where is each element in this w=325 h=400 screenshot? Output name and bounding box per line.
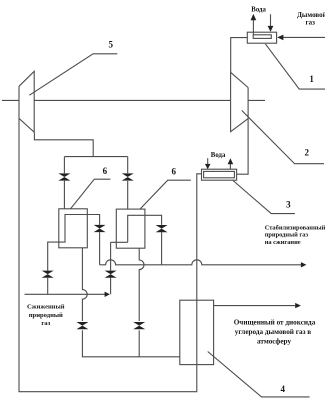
svg-text:6: 6 — [171, 167, 176, 177]
svg-text:природный: природный — [29, 312, 63, 319]
label pointer 1 — [265, 44, 325, 89]
svg-text:Вода: Вода — [251, 6, 266, 13]
svg-text:4: 4 — [280, 384, 285, 394]
wire E6a tube circuit from valve V4 — [48, 215, 100, 271]
heat exchanger U1 inner tube — [253, 35, 271, 39]
heat exchanger U3 outer shell — [202, 169, 237, 180]
label pointer 4 — [208, 352, 310, 397]
wire compressor left edge and recycle loop — [19, 86, 202, 391]
wire water outlet line U1 — [252, 20, 254, 35]
wire water inlet line U1 — [270, 14, 272, 26]
wire turbine outlet to U3 — [237, 88, 249, 175]
wire shaft right stub — [248, 99, 265, 101]
heat exchanger E6a shell — [59, 209, 88, 248]
heat exchanger U3 inner tube — [204, 171, 235, 177]
arrowhead flue gas into U1 — [277, 35, 283, 41]
compressor C5 body — [19, 71, 34, 132]
arrowhead stabilized gas out — [301, 262, 307, 267]
svg-text:Вода: Вода — [211, 152, 226, 159]
svg-text:3: 3 — [286, 199, 291, 209]
arrowhead water out U1 — [251, 14, 257, 20]
valve V6 — [76, 322, 88, 329]
svg-text:атмосферу: атмосферу — [257, 337, 291, 345]
valve V3a — [94, 225, 106, 232]
label pointer 3 — [233, 181, 295, 214]
label pointer 2 — [242, 110, 324, 163]
wire stabilized gas header — [100, 260, 302, 265]
svg-text:Очищенный от диоксида: Очищенный от диоксида — [234, 319, 316, 327]
absorber column 4 — [180, 300, 214, 364]
wire E6a bottom outlet — [82, 248, 87, 321]
label pointer 6b — [140, 180, 191, 209]
valve V3b — [156, 225, 168, 232]
arrowhead water into U1 — [268, 26, 274, 32]
svg-text:газ: газ — [41, 320, 50, 327]
wire E6b tube outlet drop — [161, 232, 163, 265]
wire V4 stem — [47, 278, 49, 295]
wire E6b tube inlet — [111, 241, 128, 243]
svg-text:на сжигание: на сжигание — [265, 239, 301, 246]
wire E6a outlet to bottom header — [82, 330, 179, 357]
valve V1 — [58, 173, 70, 180]
arrowhead cleaned flue gas out — [295, 303, 301, 308]
svg-text:5: 5 — [109, 39, 114, 49]
wire water inlet line U3 — [207, 158, 209, 165]
svg-text:Сжиженный: Сжиженный — [27, 304, 65, 311]
valve V7 — [133, 322, 145, 329]
valve V2 — [122, 173, 134, 180]
wire pipe B riser — [110, 242, 112, 294]
wire water outlet line U3 — [229, 164, 231, 169]
label pointer 6a — [71, 179, 111, 209]
heat exchanger U1 outer shell — [247, 32, 276, 43]
valve V4 — [42, 271, 54, 278]
wire cleaned flue gas outlet — [214, 305, 296, 307]
svg-text:газ: газ — [305, 18, 315, 26]
arrowhead water into U3 — [205, 164, 211, 169]
svg-text:Стабилизированный: Стабилизированный — [265, 225, 325, 232]
label pointer 5 — [29, 54, 117, 95]
svg-text:углерода дымовой газ в: углерода дымовой газ в — [235, 328, 311, 336]
wire shaft compressor to turbine — [34, 99, 230, 101]
wire E6a tube outlet drop — [99, 232, 101, 265]
wire branch header — [64, 156, 127, 158]
svg-text:6: 6 — [103, 166, 108, 176]
arrowhead water out U3 — [228, 158, 234, 164]
svg-text:1: 1 — [309, 74, 314, 84]
heat exchanger E6b shell — [116, 209, 145, 248]
wire branch to E6a — [63, 157, 65, 209]
wire flue-gas inlet line — [283, 36, 325, 38]
wire shaft left stub — [2, 99, 19, 101]
wire E6b outlet to bottom header — [138, 330, 140, 357]
wire E6b bottom outlet — [139, 248, 144, 321]
valve VB — [105, 271, 117, 278]
svg-text:природный газ: природный газ — [265, 232, 309, 239]
wire compressor outlet — [34, 132, 93, 156]
wire U1 to turbine — [231, 38, 248, 73]
arrowhead LNG feed — [105, 292, 110, 297]
turbine T2 body — [231, 72, 249, 131]
wire branch to E6b — [127, 157, 129, 210]
wire E6b tube circuit — [128, 215, 162, 242]
svg-text:2: 2 — [304, 147, 309, 157]
wire LNG feed line — [25, 293, 106, 295]
